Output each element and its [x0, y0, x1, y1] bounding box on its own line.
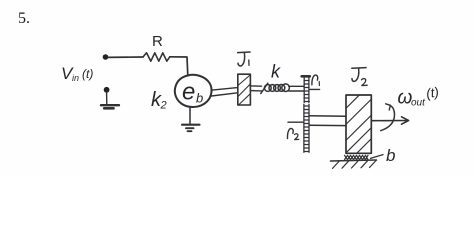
svg-text:2: 2: [160, 100, 167, 112]
shaft motor to J1: [211, 88, 238, 91]
rotation arc: [381, 105, 395, 130]
svg-text:out: out: [411, 98, 426, 109]
svg-text:(t): (t): [425, 84, 440, 101]
label J2: [352, 68, 366, 82]
terminal dot bottom: [104, 87, 110, 93]
svg-text:k: k: [271, 62, 281, 82]
ground under motor: [189, 107, 191, 124]
label w_out(t): [398, 84, 440, 108]
stub shaft left of gear2: [288, 121, 304, 123]
svg-text:b: b: [386, 146, 395, 165]
shaft spring to gear1: [289, 86, 304, 91]
svg-text:R: R: [152, 33, 163, 50]
label e_b: [182, 79, 203, 106]
gear r1 rack: [302, 75, 310, 78]
shaft gear2 to J2: [309, 116, 346, 126]
shaft J1 to spring: [250, 86, 261, 91]
label Vin(t): [61, 64, 93, 83]
label r1: [312, 75, 318, 85]
inertia J2: [346, 95, 371, 153]
label k2: [151, 89, 167, 112]
gear r2 rack: [304, 104, 309, 152]
wire dot to resistor: [108, 56, 143, 58]
svg-text:b: b: [196, 91, 203, 106]
label J1: [238, 52, 250, 66]
inertia J1: [238, 74, 251, 105]
ground at input: [106, 93, 108, 105]
svg-text:in: in: [72, 73, 79, 83]
label b with leader: [371, 155, 384, 159]
output shaft arrow: [372, 120, 407, 122]
wire resistor to motor: [170, 57, 188, 76]
ground line under bearing: [331, 160, 377, 161]
label r2: [287, 128, 293, 138]
spring k: [261, 83, 268, 93]
stub shaft right of gear1: [310, 88, 320, 90]
svg-text:e: e: [182, 79, 195, 106]
resistor R: [143, 53, 170, 61]
terminal dot top: [103, 54, 109, 60]
svg-text:5.: 5.: [18, 10, 30, 27]
svg-text:(t): (t): [82, 67, 93, 81]
bearing under J2: [345, 155, 369, 159]
motor e_b circle: [175, 75, 212, 107]
